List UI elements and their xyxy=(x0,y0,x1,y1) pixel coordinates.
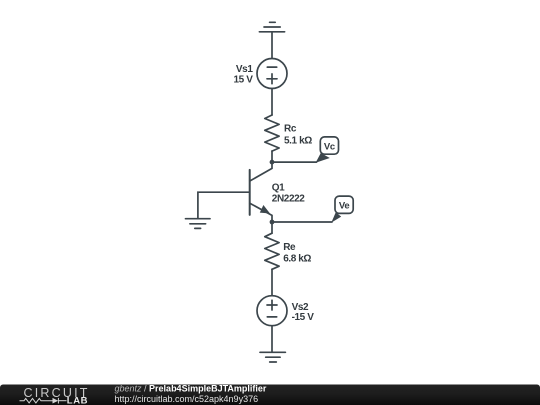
svg-text:Re: Re xyxy=(283,242,296,253)
wire: top ground to Vs1 xyxy=(271,32,273,59)
ground (top, at Vs1 negative terminal) xyxy=(259,22,284,32)
svg-text:15 V: 15 V xyxy=(234,75,254,86)
wire: base to ground xyxy=(198,192,250,218)
svg-text:gbentz / Prelab4SimpleBJTAmpli: gbentz / Prelab4SimpleBJTAmplifier xyxy=(115,384,267,394)
transistor Q1 base bar xyxy=(249,170,251,215)
node flag Ve tail xyxy=(331,212,341,222)
wire: Vs1 to Rc xyxy=(271,89,273,116)
ground (bottom) xyxy=(260,352,285,362)
wire: emitter node to Re xyxy=(271,222,273,233)
svg-text:Q1: Q1 xyxy=(272,182,285,193)
node flag Vc box xyxy=(320,137,338,154)
svg-text:5.1 kΩ: 5.1 kΩ xyxy=(284,136,312,147)
svg-text:-15 V: -15 V xyxy=(292,312,315,323)
resistor Re xyxy=(265,233,279,269)
wire: Rc to collector node xyxy=(271,151,273,162)
logo circuit line with resistor and diode xyxy=(20,398,67,404)
wire: node Ve horizontal xyxy=(272,221,332,223)
wire: node Vc horizontal xyxy=(272,161,317,163)
svg-text:Vc: Vc xyxy=(324,141,335,152)
transistor Q1 collector lead xyxy=(250,162,272,181)
svg-text:Vs1: Vs1 xyxy=(236,64,253,75)
transistor Q1 emitter lead xyxy=(250,203,272,222)
node flag Vc tail xyxy=(316,153,330,163)
voltage source Vs2 xyxy=(257,296,287,326)
junction dot at collector node xyxy=(270,160,275,165)
svg-text:2N2222: 2N2222 xyxy=(272,194,305,205)
node flag Ve box xyxy=(335,196,353,213)
svg-text:6.8 kΩ: 6.8 kΩ xyxy=(283,254,311,265)
voltage source Vs1 xyxy=(257,59,287,89)
wire: Re to Vs2 xyxy=(271,269,273,295)
ground (base) xyxy=(186,219,211,229)
svg-text:LAB: LAB xyxy=(67,395,88,405)
svg-text:Ve: Ve xyxy=(339,201,350,212)
svg-text:Rc: Rc xyxy=(284,124,297,135)
transistor Q1 emitter arrowhead xyxy=(260,205,270,214)
resistor Rc xyxy=(265,115,279,151)
svg-text:http://circuitlab.com/c52apk4n: http://circuitlab.com/c52apk4n9y376 xyxy=(115,394,259,404)
junction dot at emitter node xyxy=(270,220,275,225)
wire: Vs2 to bottom ground xyxy=(271,326,273,352)
